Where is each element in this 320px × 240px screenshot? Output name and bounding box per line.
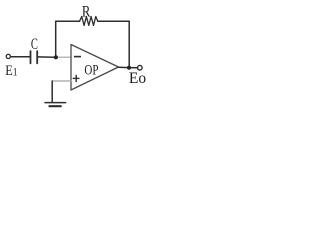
svg-text:C: C [31,35,38,53]
svg-text:E: E [5,62,13,78]
svg-text:R: R [82,3,91,20]
svg-text:1: 1 [13,66,18,79]
svg-text:OP: OP [84,62,98,78]
svg-text:Eo: Eo [129,70,146,87]
